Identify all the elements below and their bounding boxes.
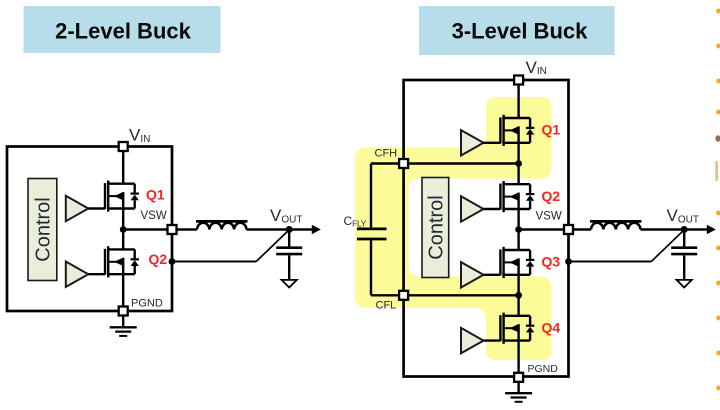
yellow highlight region (flying-cap path) — [355, 97, 552, 360]
svg-text:2-Level Buck: 2-Level Buck — [55, 19, 191, 44]
wire buffer to Q2 gate — [484, 208, 501, 210]
label Q2 — [542, 188, 561, 204]
label CFL — [376, 300, 397, 312]
orange bullet dot (right edge) — [716, 79, 720, 84]
orange bullet dot (right edge) — [716, 281, 720, 286]
gate driver buffer for Q4 (3-level) — [461, 328, 484, 353]
pin PGND square (3-level) — [514, 373, 523, 382]
pin CFH square — [399, 159, 408, 168]
transistor Q4 (3-level) — [500, 313, 534, 344]
dark bullet dot (right edge) — [715, 135, 720, 141]
orange bullet dot (right edge) — [716, 44, 720, 49]
feedback wire (3-level) — [569, 230, 685, 262]
pin VIN (square) — [119, 142, 128, 151]
gate driver buffer for Q1 (3-level) — [461, 130, 484, 155]
orange bullet dot (right edge) — [716, 9, 720, 14]
IC outline box (3-level buck) — [404, 80, 569, 377]
svg-text:3-Level Buck: 3-Level Buck — [452, 19, 588, 44]
ground (output cap, 2-level) — [282, 280, 297, 288]
svg-text:Q2: Q2 — [542, 188, 561, 204]
node VSW junction dot (3-level) — [515, 226, 522, 233]
label VSW (3-level) — [536, 211, 562, 223]
wire Q1 source to Q2 drain (VSW node) — [122, 209, 124, 250]
transistor Q3 (3-level) — [500, 247, 534, 278]
label CFH — [375, 148, 398, 160]
label VSW — [141, 210, 167, 222]
transistor Q1 (2-level) — [105, 181, 139, 212]
wire buffer to Q2 gate — [88, 273, 105, 275]
label VIN (3-level) — [526, 58, 547, 77]
svg-text:CFH: CFH — [375, 148, 398, 160]
wire inductor to VOUT node (3-level) — [641, 228, 686, 230]
label Q4 — [542, 320, 561, 336]
pin VSW square (3-level) — [564, 225, 573, 234]
wire VSW node to inductor — [123, 228, 197, 230]
node VSW junction dot — [120, 226, 127, 233]
tan bar (right edge) — [715, 161, 718, 181]
wire buffer to Q4 gate — [484, 339, 501, 341]
capacitor CFLY — [357, 164, 387, 296]
svg-text:Q3: Q3 — [542, 254, 561, 270]
svg-text:Q2: Q2 — [149, 251, 168, 267]
svg-text:Q1: Q1 — [146, 187, 165, 203]
svg-text:PGND: PGND — [131, 298, 163, 310]
ground (power ground, 2-level) — [110, 327, 137, 336]
inductor L (3-level) — [590, 221, 642, 229]
gate driver buffer for Q2 (3-level) — [461, 196, 484, 221]
label Q3 — [542, 254, 561, 270]
svg-text:Q1: Q1 — [542, 122, 561, 138]
gate driver buffer for Q3 (3-level) — [461, 262, 484, 287]
output arrow (3-level) — [685, 225, 716, 235]
wire Q3 source to Q4 drain (CFL node) — [517, 275, 519, 316]
wire CFH pin to CFH node — [371, 162, 519, 164]
gate driver buffer for Q2 — [66, 262, 89, 287]
label VOUT (3-level) — [667, 206, 699, 225]
title banner "2-Level Buck" — [24, 6, 221, 53]
label PGND (3-level) — [528, 363, 559, 375]
label VOUT (2-level) — [270, 206, 302, 225]
transistor Q2 (2-level) — [105, 246, 139, 277]
capacitor COUT (2-level) — [276, 230, 302, 281]
orange bullet dot (right edge) — [716, 110, 720, 115]
label CFLY — [344, 214, 367, 229]
wire VIN pin to Q1 drain — [122, 147, 124, 184]
svg-text:VSW: VSW — [536, 211, 562, 223]
wire PGND to ground — [122, 316, 124, 327]
ground (power ground, 3-level) — [505, 393, 532, 402]
svg-text:Control: Control — [32, 197, 54, 261]
control block (3-level) — [422, 178, 449, 278]
node VOUT dot (3-level) — [681, 226, 688, 233]
feedback wire (2-level) — [172, 230, 289, 262]
svg-text:PGND: PGND — [528, 363, 559, 375]
pin VIN square (3-level) — [514, 76, 523, 85]
control block — [28, 179, 57, 281]
pin CFL square — [399, 291, 408, 300]
svg-text:Control: Control — [425, 195, 447, 259]
title banner "3-Level Buck" — [419, 6, 615, 55]
IC outline box (2-level buck) — [7, 147, 172, 312]
gate driver buffer for Q1 — [66, 196, 89, 221]
orange bullet dot (right edge) — [716, 211, 720, 216]
wire VSW node to inductor (3-level) — [519, 228, 591, 230]
orange bullet dot (right edge) — [716, 246, 720, 251]
node CFL junction dot — [515, 292, 522, 299]
wire VIN pin to Q1 drain (3-level) — [517, 80, 519, 118]
label Q1 — [146, 187, 165, 203]
node VOUT dot (2-level) — [286, 226, 293, 233]
orange bullet dot (right edge) — [716, 386, 720, 391]
wire Q4 source to PGND pin (3-level) — [517, 341, 519, 377]
label PGND — [131, 298, 163, 310]
wire buffer to Q1 gate — [88, 207, 105, 209]
label Q2 — [149, 251, 168, 267]
orange bullet dot (right edge) — [716, 316, 720, 321]
node CFH junction dot — [515, 160, 522, 167]
ground (output cap, 3-level) — [677, 280, 692, 288]
label Q1 — [542, 122, 561, 138]
wire Q2 source to Q3 drain (VSW node) — [517, 209, 519, 250]
output arrow (2-level) — [290, 225, 321, 235]
wire inductor to VOUT node — [247, 228, 291, 230]
wire Q2 source to PGND pin — [122, 274, 124, 311]
transistor Q1 (3-level) — [500, 115, 534, 146]
feedback node dot on box edge (2-level) — [169, 258, 176, 265]
svg-text:Q4: Q4 — [542, 320, 561, 336]
wire CFL pin to CFL node — [371, 294, 519, 296]
wire buffer to Q3 gate — [484, 274, 501, 276]
wire buffer to Q1 gate — [484, 142, 501, 144]
inductor L (2-level) — [196, 221, 248, 229]
pin PGND (square) — [119, 307, 128, 316]
label VIN — [129, 126, 150, 145]
orange bullet dot (right edge) — [716, 351, 720, 356]
feedback node dot on box edge (3-level) — [565, 258, 572, 265]
svg-text:VSW: VSW — [141, 210, 167, 222]
wire PGND to ground (3-level) — [517, 382, 519, 393]
pin VSW (square) — [168, 225, 177, 234]
wire Q1 source to Q2 drain (CFH node) — [517, 143, 519, 184]
svg-text:CFL: CFL — [376, 300, 397, 312]
capacitor COUT (3-level) — [671, 230, 697, 281]
transistor Q2 (3-level) — [500, 181, 534, 212]
